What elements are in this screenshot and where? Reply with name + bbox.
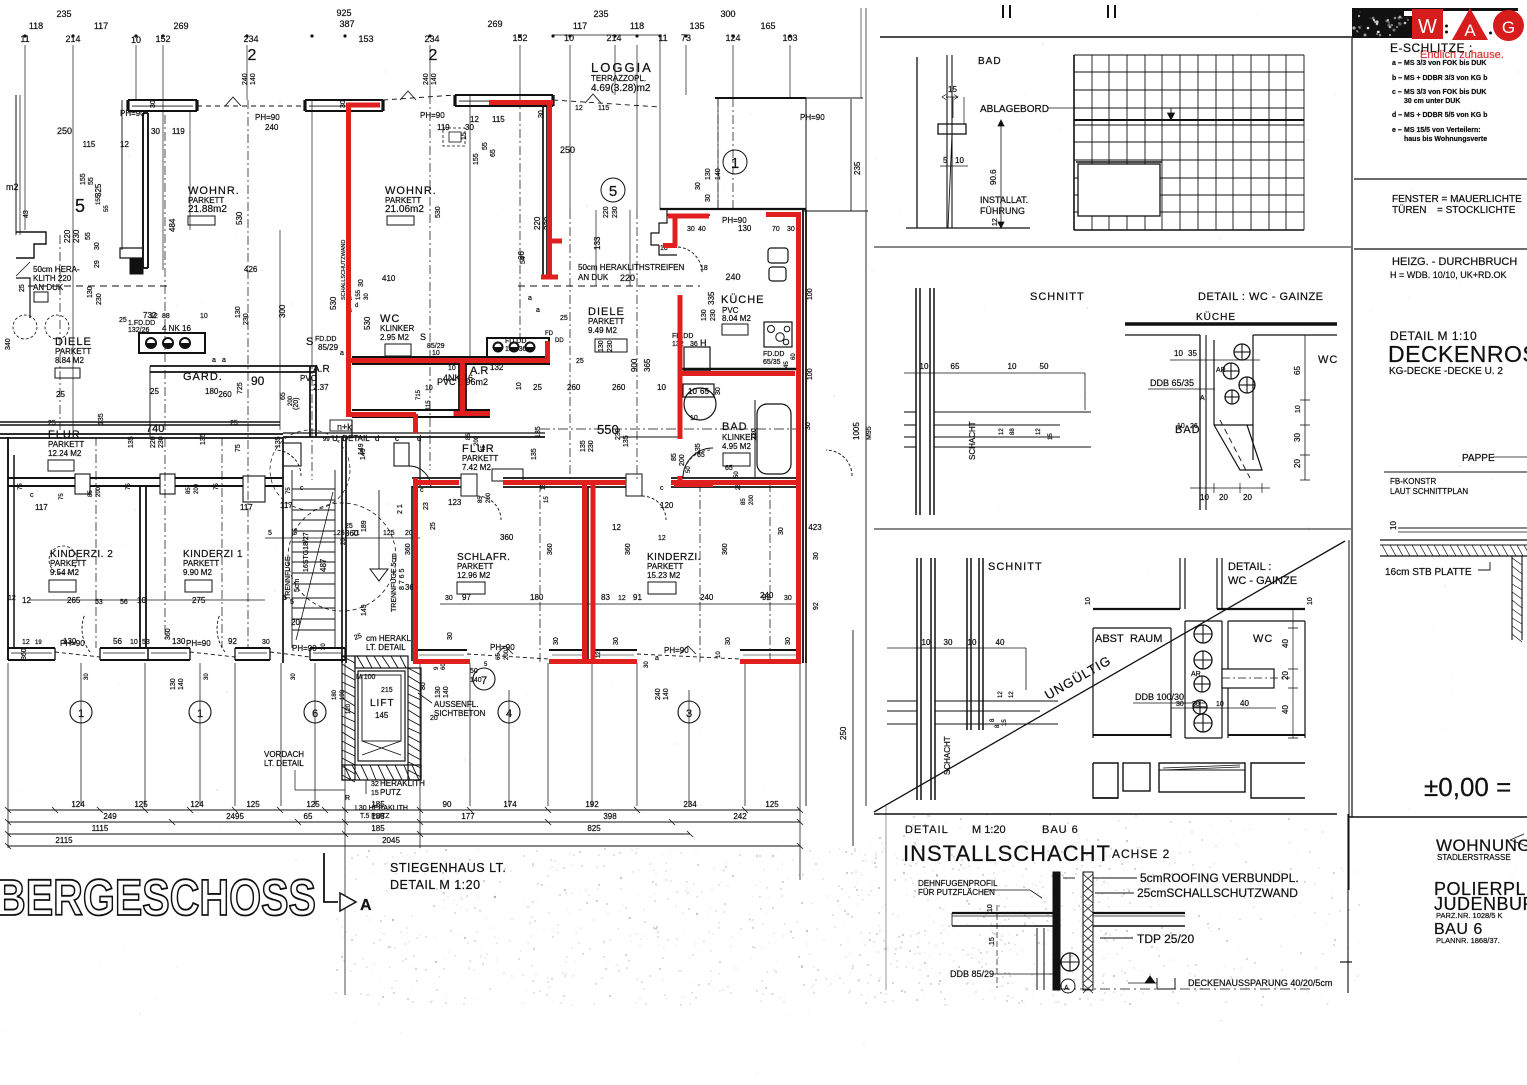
svg-text:MS 3/3 von FOK bis DUK: MS 3/3 von FOK bis DUK — [1404, 89, 1486, 96]
svg-text:19: 19 — [35, 640, 42, 646]
exterior wall top segment C — [455, 94, 553, 96]
svg-text:135: 135 — [580, 440, 587, 452]
svg-text:85/29: 85/29 — [427, 343, 445, 350]
svg-text:230: 230 — [710, 309, 717, 321]
vertical dim 90.6 — [1000, 120, 1002, 228]
svg-text:155: 155 — [80, 173, 87, 185]
svg-text:30: 30 — [813, 552, 820, 560]
svg-text:5: 5 — [268, 530, 272, 537]
svg-text:4: 4 — [506, 708, 512, 720]
svg-text:125: 125 — [333, 530, 345, 537]
svg-text:40: 40 — [1240, 699, 1249, 708]
svg-text:177: 177 — [461, 812, 475, 821]
svg-text:SCHACHT: SCHACHT — [943, 736, 952, 775]
svg-text:50: 50 — [1040, 362, 1049, 371]
svg-text:2 1: 2 1 — [397, 504, 404, 514]
svg-text:423: 423 — [808, 523, 822, 532]
svg-text:65: 65 — [490, 149, 497, 157]
svg-text:130: 130 — [435, 686, 442, 698]
svg-text:260: 260 — [567, 383, 581, 392]
svg-text:85/29: 85/29 — [318, 343, 339, 352]
svg-text:115: 115 — [83, 140, 96, 149]
svg-text:250: 250 — [839, 726, 848, 740]
svg-text:234: 234 — [424, 34, 439, 44]
svg-text:25: 25 — [533, 383, 542, 392]
svg-text:25: 25 — [230, 420, 238, 427]
svg-text:30: 30 — [1293, 433, 1302, 442]
svg-text:133: 133 — [593, 236, 602, 250]
svg-text:360: 360 — [722, 543, 729, 555]
lift shaft hatched walls — [342, 656, 355, 780]
svg-text:PH=90: PH=90 — [664, 646, 689, 655]
window boxes in top wall band — [75, 474, 90, 494]
svg-text:118: 118 — [630, 21, 644, 31]
svg-text:M 100: M 100 — [356, 674, 376, 681]
svg-text:124: 124 — [190, 800, 204, 809]
svg-text:5: 5 — [283, 595, 287, 602]
exterior wall top segment B — [305, 99, 383, 101]
drawing alignment marks — [1002, 5, 1004, 18]
svg-text:249: 249 — [103, 812, 117, 821]
right dims 2 — [1292, 609, 1294, 738]
svg-text:30: 30 — [705, 194, 712, 202]
svg-text:10: 10 — [1389, 521, 1398, 530]
svg-text:PAPPE: PAPPE — [1462, 453, 1495, 464]
svg-text:A: A — [1464, 21, 1476, 40]
hatched schallschutzwand — [1083, 872, 1093, 990]
svg-text:88: 88 — [1010, 428, 1016, 435]
svg-text:50cm HERA-: 50cm HERA- — [33, 265, 80, 274]
svg-text:200: 200 — [288, 395, 294, 406]
WAG G red circle — [1493, 10, 1524, 41]
svg-text:117: 117 — [573, 21, 587, 31]
left exterior wall — [7, 437, 9, 660]
svg-text:A: A — [360, 897, 372, 914]
svg-text:A: A — [1064, 985, 1069, 992]
svg-text:KÜCHE: KÜCHE — [721, 294, 765, 306]
svg-text:135: 135 — [98, 413, 105, 425]
svg-text:360: 360 — [500, 533, 514, 542]
building top right edge — [715, 97, 806, 99]
svg-text:15: 15 — [544, 496, 550, 503]
svg-text:185: 185 — [371, 800, 385, 809]
svg-text:65: 65 — [280, 392, 287, 400]
svg-text:LT. DETAIL: LT. DETAIL — [264, 759, 304, 768]
tub blank — [1078, 164, 1160, 216]
svg-text:125: 125 — [383, 530, 395, 537]
svg-text:85: 85 — [671, 453, 678, 461]
svg-text:340: 340 — [5, 338, 12, 350]
dimension row 4 — [8, 845, 800, 847]
schnitt1 dim line — [904, 372, 1085, 374]
svg-text:155: 155 — [96, 194, 102, 205]
svg-text:530: 530 — [235, 211, 244, 225]
svg-text:FD.DD: FD.DD — [672, 333, 693, 340]
svg-text:25: 25 — [150, 387, 159, 396]
svg-text:174: 174 — [503, 800, 517, 809]
svg-text:PARKETT: PARKETT — [462, 454, 498, 463]
svg-text:25: 25 — [19, 284, 26, 292]
svg-text:190: 190 — [340, 689, 346, 700]
svg-text:PARKETT: PARKETT — [183, 559, 219, 568]
svg-text:220: 220 — [150, 436, 157, 448]
svg-text:c: c — [300, 485, 304, 492]
svg-text:25: 25 — [48, 420, 56, 427]
svg-text:149: 149 — [360, 448, 367, 460]
svg-text:AN DUK: AN DUK — [33, 283, 64, 292]
red apartment 7 outline — [346, 100, 562, 661]
svg-text:12: 12 — [1009, 691, 1015, 698]
svg-text:12: 12 — [575, 105, 583, 112]
svg-text:DETAIL :: DETAIL : — [1228, 561, 1271, 573]
bad detail wall — [916, 57, 918, 228]
svg-text:825: 825 — [587, 824, 601, 833]
svg-text:30: 30 — [1176, 701, 1184, 708]
svg-text:d: d — [355, 303, 358, 309]
svg-text:SCHNITT: SCHNITT — [988, 561, 1043, 573]
WAG A red triangle — [1452, 8, 1488, 40]
svg-text:115: 115 — [426, 400, 432, 410]
svg-text:= STOCKLICHTE: = STOCKLICHTE — [1437, 205, 1516, 216]
small tick bottom left of column — [1340, 961, 1352, 963]
right boundary verticals — [805, 98, 807, 663]
svg-text:26: 26 — [1190, 423, 1198, 430]
svg-text:119: 119 — [437, 123, 450, 132]
red apartment 1 outline (kueche/bad) — [663, 214, 801, 486]
svg-text:S: S — [306, 336, 313, 348]
svg-text:30: 30 — [364, 293, 370, 300]
svg-text:240: 240 — [423, 73, 430, 85]
svg-text:10: 10 — [200, 313, 208, 320]
svg-text:140: 140 — [431, 73, 438, 85]
gard walls — [150, 365, 316, 367]
svg-text:85: 85 — [88, 490, 94, 497]
svg-text:1.FD.DD: 1.FD.DD — [128, 320, 155, 327]
svg-text:10: 10 — [1307, 597, 1314, 605]
svg-text:FENSTER = MAUERLICHTE: FENSTER = MAUERLICHTE — [1392, 194, 1522, 205]
top wall band schlafr/kinderzi black — [412, 477, 461, 479]
kitchen top wall — [660, 208, 806, 210]
svg-text:275: 275 — [192, 596, 206, 605]
svg-text:AN DUK: AN DUK — [578, 273, 609, 282]
svg-text:TDP 25/20: TDP 25/20 — [1137, 932, 1194, 946]
svg-text:30: 30 — [445, 595, 453, 602]
svg-text:140: 140 — [178, 678, 185, 690]
svg-text:235: 235 — [853, 161, 862, 175]
dimension row 2 — [8, 821, 800, 823]
svg-text:200: 200 — [194, 483, 200, 494]
svg-text:410: 410 — [382, 274, 396, 283]
svg-text:LIFT: LIFT — [370, 698, 395, 709]
svg-text:360: 360 — [625, 543, 632, 555]
separator 1 — [1354, 178, 1527, 180]
svg-text:140: 140 — [250, 73, 257, 85]
svg-text:5: 5 — [290, 599, 294, 606]
svg-text:125: 125 — [306, 800, 320, 809]
svg-text:165: 165 — [760, 21, 775, 31]
svg-text:130: 130 — [172, 637, 186, 646]
door frames schlafr — [461, 474, 477, 496]
svg-text:ABST: ABST — [1095, 633, 1124, 645]
svg-text:21.06m2: 21.06m2 — [385, 204, 424, 215]
svg-text:a: a — [655, 655, 659, 662]
svg-text:140: 140 — [470, 677, 482, 684]
svg-text:192: 192 — [585, 800, 599, 809]
svg-text:120: 120 — [346, 703, 352, 714]
svg-text:DECKENROST: DECKENROST — [1388, 341, 1527, 367]
svg-text:30: 30 — [644, 661, 650, 668]
svg-text:300: 300 — [720, 9, 735, 19]
svg-text:10: 10 — [1216, 701, 1224, 708]
svg-text:DETAIL M 1:20: DETAIL M 1:20 — [390, 878, 481, 892]
svg-text:115: 115 — [598, 105, 609, 112]
svg-text:W: W — [1418, 16, 1437, 38]
svg-text:40: 40 — [1281, 705, 1290, 714]
bad detail shelf — [938, 124, 966, 134]
svg-text:23: 23 — [423, 502, 430, 510]
svg-text:50: 50 — [686, 466, 692, 473]
svg-text:5: 5 — [75, 196, 85, 216]
svg-text:140: 140 — [663, 688, 670, 700]
svg-text:LOGGIA: LOGGIA — [591, 60, 653, 75]
svg-text:55: 55 — [85, 232, 92, 240]
svg-text:A: A — [1200, 395, 1205, 402]
svg-text:132: 132 — [490, 363, 504, 372]
kitchen fixtures — [768, 248, 788, 263]
svg-text:PARKETT: PARKETT — [55, 347, 91, 356]
tile grid — [1074, 55, 1304, 230]
svg-text:PVC: PVC — [300, 374, 317, 383]
svg-text:220: 220 — [620, 273, 635, 283]
svg-text:130: 130 — [701, 309, 708, 321]
svg-text:M95: M95 — [866, 426, 873, 440]
exterior wall top segment A — [128, 99, 197, 101]
svg-text:15.23 M2: 15.23 M2 — [647, 571, 681, 580]
svg-text:10: 10 — [564, 33, 574, 43]
svg-text:260: 260 — [612, 383, 626, 392]
svg-text:20: 20 — [341, 538, 347, 545]
diagonal ungueltig line — [874, 541, 1345, 812]
wc box 2 — [1228, 620, 1305, 622]
svg-text:MS 3/3 von FOK bis DUK: MS 3/3 von FOK bis DUK — [1404, 60, 1486, 67]
svg-text:G: G — [1502, 18, 1515, 37]
svg-text:65: 65 — [1293, 366, 1302, 375]
svg-text:119: 119 — [172, 127, 185, 136]
svg-text:10: 10 — [1177, 423, 1185, 430]
svg-text:155: 155 — [356, 289, 362, 300]
svg-text:KG-DECKE -DECKE U. 2: KG-DECKE -DECKE U. 2 — [1389, 366, 1503, 377]
bad tub — [757, 404, 791, 474]
svg-text:487: 487 — [319, 558, 328, 572]
svg-text:200: 200 — [504, 649, 510, 660]
svg-text:100: 100 — [807, 288, 814, 300]
svg-text:15: 15 — [371, 790, 379, 797]
svg-text:FÜR PUTZFLÄCHEN: FÜR PUTZFLÄCHEN — [918, 888, 995, 897]
arrow far right bottom — [1510, 834, 1524, 845]
schnitt2 shaft walls — [916, 558, 918, 800]
svg-text:85: 85 — [186, 487, 192, 494]
wc gainze shaft box — [1199, 335, 1201, 510]
svg-text:132/26: 132/26 — [128, 327, 150, 334]
svg-text:235: 235 — [56, 9, 71, 19]
svg-text:DEHNFUGENPROFIL: DEHNFUGENPROFIL — [918, 879, 998, 888]
svg-text:230: 230 — [588, 440, 595, 452]
svg-text:200: 200 — [486, 492, 492, 503]
svg-text:(20): (20) — [293, 398, 300, 410]
svg-text:30: 30 — [553, 637, 560, 645]
svg-text:200: 200 — [749, 494, 755, 505]
door swing arcs — [82, 614, 90, 652]
WAG dots between — [1445, 25, 1448, 28]
svg-text:240: 240 — [242, 73, 249, 85]
svg-text:a: a — [222, 357, 226, 364]
svg-text:c: c — [395, 434, 399, 443]
dimension extension lines vertical — [25, 38, 790, 430]
svg-text:117: 117 — [240, 503, 253, 512]
diele washbasin circles — [13, 315, 37, 339]
svg-text:220: 220 — [63, 229, 72, 243]
svg-text:188: 188 — [371, 812, 385, 821]
svg-text:360: 360 — [165, 628, 172, 640]
svg-text:484: 484 — [168, 218, 177, 232]
svg-text:40: 40 — [698, 226, 706, 233]
svg-text:FÜHRUNG: FÜHRUNG — [980, 206, 1025, 216]
bad wc — [684, 347, 710, 371]
svg-text:123: 123 — [448, 498, 462, 507]
svg-text:155: 155 — [473, 153, 480, 165]
L bracket right — [1251, 763, 1305, 798]
svg-text:30: 30 — [784, 595, 792, 602]
svg-text:55: 55 — [104, 205, 110, 212]
svg-text:10: 10 — [955, 156, 964, 165]
svg-text:DETAIL: DETAIL — [905, 824, 949, 836]
svg-text:10: 10 — [516, 382, 523, 390]
svg-text:30: 30 — [695, 182, 702, 190]
svg-text:cm HERAKL: cm HERAKL — [366, 634, 411, 643]
bad top wall black — [680, 368, 797, 370]
center shaft 2 — [1184, 621, 1186, 738]
svg-text:30: 30 — [291, 673, 297, 680]
bottom door dashes right — [467, 654, 549, 659]
svg-text:530: 530 — [329, 296, 338, 310]
svg-text:30: 30 — [944, 638, 953, 647]
svg-text:TÜREN: TÜREN — [1392, 204, 1426, 216]
bottom wall with windows — [8, 647, 55, 649]
verticals from rooms to dim rows — [8, 663, 800, 995]
entry wall at flur — [420, 436, 545, 438]
svg-text:90: 90 — [251, 374, 265, 388]
svg-text:2.95 M2: 2.95 M2 — [380, 333, 409, 342]
svg-text:SICHTBETON: SICHTBETON — [434, 709, 486, 718]
schlafr interior walls black — [411, 486, 413, 661]
diagonal duct — [1214, 425, 1262, 470]
svg-text:OBERGESCHOSS: OBERGESCHOSS — [0, 869, 316, 926]
svg-text:20: 20 — [1293, 459, 1302, 468]
svg-text:ACHSE 2: ACHSE 2 — [1112, 847, 1170, 861]
nk grid boxes (electrical) — [139, 333, 205, 353]
svg-text:PLANNR. 1868/37.: PLANNR. 1868/37. — [1436, 936, 1500, 945]
svg-text:125: 125 — [246, 800, 260, 809]
svg-text:10: 10 — [448, 365, 456, 372]
svg-text:PUTZ: PUTZ — [380, 788, 401, 797]
svg-text:PH=90: PH=90 — [255, 113, 280, 122]
svg-text:530: 530 — [363, 316, 372, 330]
svg-text:MS + DDBR 3/3 von KG b: MS + DDBR 3/3 von KG b — [1404, 75, 1487, 82]
svg-text:HEIZG. - DURCHBRUCH: HEIZG. - DURCHBRUCH — [1392, 256, 1517, 268]
svg-text:PH=90: PH=90 — [490, 643, 515, 652]
svg-text:TERRAZZOPL.: TERRAZZOPL. — [591, 74, 646, 83]
bottom door dashes — [55, 652, 100, 657]
svg-text:FD.DD: FD.DD — [315, 336, 336, 343]
svg-text:130: 130 — [170, 678, 177, 690]
top dim line ticks — [553, 34, 660, 36]
svg-text:12.24 M2: 12.24 M2 — [48, 449, 82, 458]
svg-text:12: 12 — [596, 651, 602, 658]
tile grid heavy lines — [1073, 55, 1075, 230]
svg-text:30: 30 — [94, 242, 101, 250]
svg-text:DD: DD — [555, 338, 564, 344]
svg-text:65: 65 — [304, 812, 313, 821]
schnitt2 dim — [887, 647, 1026, 649]
svg-text:DECKENAUSSPARUNG 40/20/5cm: DECKENAUSSPARUNG 40/20/5cm — [1188, 978, 1332, 988]
svg-text:180: 180 — [205, 387, 219, 396]
svg-text:30: 30 — [204, 673, 210, 680]
bottom walls 2 — [1093, 734, 1171, 736]
svg-text:d –: d – — [1392, 112, 1402, 119]
svg-text:230: 230 — [615, 428, 622, 440]
svg-text:135: 135 — [689, 21, 704, 31]
svg-text:LAUT SCHNITTPLAN: LAUT SCHNITTPLAN — [1390, 487, 1468, 496]
svg-text:91: 91 — [633, 593, 642, 602]
small dashed window box middle top — [443, 128, 465, 146]
svg-text:25: 25 — [430, 522, 437, 530]
svg-text:20: 20 — [1281, 671, 1290, 680]
svg-text:32: 32 — [371, 781, 379, 788]
svg-text:30: 30 — [447, 632, 454, 640]
dimension row 1 — [8, 809, 800, 811]
svg-text:740: 740 — [146, 423, 164, 435]
stairwell box — [282, 437, 284, 663]
vent symbol — [1061, 953, 1079, 971]
svg-text:130: 130 — [63, 637, 77, 646]
svg-text:FD: FD — [545, 331, 554, 337]
bottom wall schlafr/kinderzi with windows — [416, 649, 467, 651]
svg-text:30: 30 — [465, 123, 474, 132]
left loggia edge — [15, 95, 17, 235]
svg-text:30: 30 — [687, 226, 695, 233]
svg-text:65: 65 — [951, 362, 960, 371]
corridor walls — [0, 421, 280, 423]
svg-text:BAU 6: BAU 6 — [1042, 824, 1079, 836]
svg-text:haus bis Wohnungsverte: haus bis Wohnungsverte — [1404, 136, 1487, 143]
bottom blocks row — [1093, 763, 1118, 798]
svg-text:±0,00 =: ±0,00 = — [1424, 772, 1511, 802]
svg-text:530: 530 — [435, 206, 442, 218]
svg-text:12: 12 — [618, 595, 626, 602]
svg-text:R: R — [345, 795, 350, 802]
svg-text:75: 75 — [59, 493, 65, 500]
svg-text:DDB 85/29: DDB 85/29 — [950, 969, 994, 979]
svg-text:MS + DDBR 5/5 von KG b: MS + DDBR 5/5 von KG b — [1404, 112, 1487, 119]
svg-text:65: 65 — [725, 465, 733, 472]
svg-text:5: 5 — [943, 156, 948, 165]
svg-text:5cm: 5cm — [294, 579, 301, 592]
svg-text:180: 180 — [332, 689, 338, 700]
svg-text:15: 15 — [1048, 433, 1054, 440]
WAG logo black blob — [1352, 8, 1412, 38]
circled numbers — [70, 701, 92, 723]
svg-text:10: 10 — [688, 387, 697, 396]
